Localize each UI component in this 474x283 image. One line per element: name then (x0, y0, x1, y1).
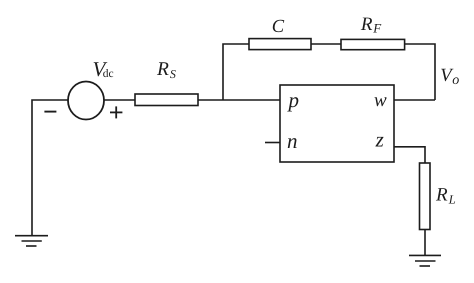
wire: C to RF (311, 43, 341, 45)
wire: RL to right ground (424, 230, 426, 256)
wire: z pin right and down to RL (394, 147, 425, 163)
capacitor C body (249, 39, 311, 50)
resistor RF body (341, 39, 405, 49)
wire: RS to box pin p (198, 99, 280, 101)
svg-text:C: C (272, 17, 285, 37)
resistor RS body (135, 94, 198, 106)
wire: source left to left rail down to ground (32, 100, 68, 235)
svg-text:R: R (435, 184, 448, 205)
svg-text:S: S (170, 67, 176, 81)
svg-text:R: R (156, 59, 169, 80)
plus sign of source (110, 111, 122, 113)
svg-text:L: L (448, 192, 456, 206)
wire: RF right corner down to output node (405, 44, 435, 100)
svg-text:dc: dc (103, 68, 114, 80)
ground left (15, 235, 48, 237)
svg-text:o: o (452, 73, 459, 88)
wire: feedback tap vertical at node after RS (223, 44, 249, 100)
resistor RL body (420, 163, 431, 230)
minus sign of source (44, 111, 56, 113)
wire: w pin to output node (394, 99, 435, 101)
svg-text:n: n (287, 129, 298, 153)
wire: n pin stub (265, 142, 280, 144)
svg-text:z: z (375, 128, 384, 152)
wire: source right to RS (104, 99, 135, 101)
svg-text:w: w (374, 90, 387, 111)
svg-text:F: F (372, 21, 382, 36)
svg-text:R: R (360, 14, 373, 35)
svg-text:p: p (287, 88, 300, 112)
ground right (409, 254, 441, 256)
op-amp block U1 (280, 85, 394, 162)
voltage source Vdc circle (68, 82, 104, 120)
